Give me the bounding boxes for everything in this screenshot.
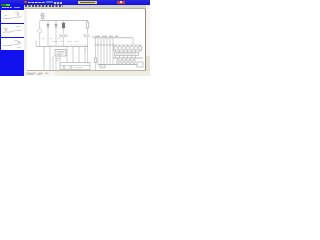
wire drop d4: [59, 56, 61, 62]
sheet bottom border: [27, 69, 146, 72]
left sidebar: [0, 4, 24, 76]
menu bar: [24, 5, 150, 9]
diode D1: [47, 21, 49, 47]
wire stub left: [35, 41, 37, 47]
sidebar white text: [2, 7, 12, 8]
resistor pack pin stubs: [116, 56, 136, 59]
resistor RB1: [117, 58, 119, 65]
led D11: [114, 46, 117, 49]
value label V1: [42, 38, 46, 40]
wire drop e4: [84, 46, 86, 62]
preview box 1: [1, 10, 24, 23]
resistor RB5: [133, 58, 135, 65]
right gutter top: [146, 9, 150, 56]
right gutter bottom beige: [146, 56, 150, 77]
close button: [117, 1, 125, 4]
resistor RB2: [121, 58, 123, 65]
resistor RB4: [129, 58, 131, 65]
wire drop d3b: [52, 56, 54, 71]
wire drop e2: [72, 46, 74, 62]
terminal block X2: [137, 62, 143, 67]
schematic drawing: [0, 0, 150, 76]
wire drop d1: [43, 46, 45, 70]
label cluster R1 value: [84, 35, 89, 63]
wire drop d3: [55, 56, 57, 71]
connector block X1: [60, 63, 90, 70]
led drop L4: [103, 38, 105, 65]
title text 2: [54, 2, 62, 4]
app icon: [24, 1, 27, 3]
wire corner up: [92, 36, 94, 38]
led drop L3: [100, 38, 102, 65]
ac source V1: [38, 21, 42, 47]
schematic sheet: [27, 9, 146, 72]
yellow bar: [78, 1, 97, 4]
wire bus lower: [113, 57, 143, 59]
wire drop d2: [49, 46, 51, 70]
value label D2: [58, 38, 61, 40]
switch S1: [100, 65, 105, 69]
value label D1: [50, 38, 53, 40]
title bar: [0, 0, 150, 5]
wire corner down right: [132, 38, 134, 45]
right top bus wire: [93, 37, 133, 39]
title text: [28, 2, 45, 4]
resistor pack RN1: [115, 53, 139, 56]
resistor R2: [94, 38, 97, 71]
bottom rail wire: [28, 70, 60, 72]
led D16: [134, 46, 137, 49]
resistor RB3: [125, 58, 127, 65]
wire drop e3: [78, 46, 80, 62]
green button bright: [6, 4, 10, 6]
led drop L7: [112, 38, 114, 65]
bottom right bus wire: [98, 64, 137, 66]
node A: [47, 19, 50, 22]
led D12: [118, 46, 121, 49]
led D17: [138, 46, 141, 49]
ic U1: [55, 50, 66, 57]
wire top rail: [40, 20, 88, 22]
preview sketch 1: [3, 13, 21, 20]
preview box 3: [1, 38, 24, 51]
preview sketch 3: [3, 41, 21, 48]
capacitor C1: [62, 21, 65, 34]
preview box 2: [1, 24, 24, 37]
bottom strip: [27, 71, 150, 76]
status bar text: [26, 73, 49, 74]
led array box: [114, 45, 142, 51]
preview sketch 2: [3, 27, 21, 33]
menu text: [25, 5, 63, 7]
diode D2: [55, 21, 57, 47]
led D15: [130, 46, 133, 49]
label text X1: [57, 59, 60, 61]
led D14: [126, 46, 129, 49]
resistor R1: [86, 21, 89, 34]
led D13: [122, 46, 125, 49]
green button dark: [1, 4, 6, 6]
label cluster C1 value: [59, 35, 67, 47]
led drop L2: [97, 38, 99, 65]
plug / input component J1: [40, 13, 44, 21]
node B: [55, 19, 58, 22]
highlight patch 1: [46, 1, 53, 4]
wire drop e1: [66, 46, 68, 62]
label text LED row: [95, 35, 118, 37]
mid bus wire: [36, 45, 88, 47]
led pin stubs: [116, 45, 140, 53]
sheet right border: [144, 9, 147, 71]
label text row mid: [52, 41, 79, 43]
bus taps: [50, 45, 86, 47]
led drop L5: [106, 38, 108, 65]
led drop L6: [109, 38, 111, 65]
gutter between sidebar and sheet: [24, 9, 27, 77]
